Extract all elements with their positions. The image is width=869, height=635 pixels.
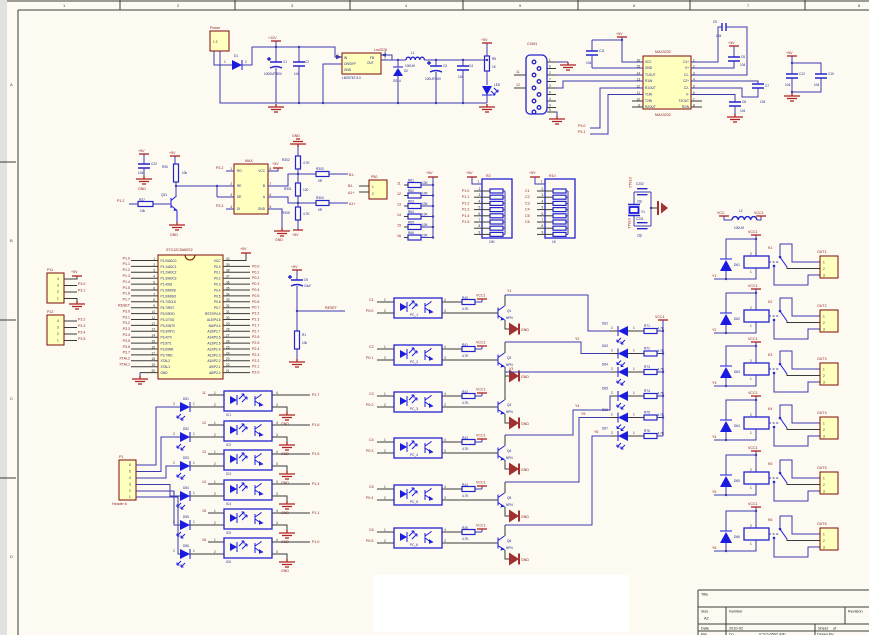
svg-text:+5V: +5V [169,151,176,155]
svg-text:P3.3: P3.3 [216,204,223,208]
svg-text:+5V: +5V [138,149,145,153]
ground below C12 [784,93,800,101]
svg-text:2: 2 [549,71,551,75]
svg-text:P1.1: P1.1 [312,511,319,515]
svg-text:10K: 10K [422,192,429,196]
svg-text:NPN: NPN [506,316,513,320]
svg-text:1: 1 [193,549,195,553]
svg-text:1: 1 [633,391,635,395]
svg-text:OUT2: OUT2 [817,304,827,308]
ground below Q31 [169,222,185,230]
connector OUT2 [820,310,838,332]
wire R1OUT down [590,88,643,128]
resistor R30 10k [174,164,179,182]
svg-text:+5V: +5V [291,265,298,269]
contact wire to pin1 ch3 [780,351,820,369]
svg-text:P2.4: P2.4 [252,347,259,351]
MAX3232 unused stubs [632,100,643,102]
svg-text:R65: R65 [408,221,414,225]
svg-text:+5V: +5V [786,51,793,55]
transistor Q6 NPN [497,538,499,549]
contact wire to pin3 ch1 [774,266,820,285]
svg-text:C4: C4 [369,438,374,442]
svg-text:P3.3: P3.3 [123,327,130,331]
resistor R45 4.7K [462,530,475,535]
svg-text:3: 3 [230,193,232,197]
svg-text:D64: D64 [602,363,608,367]
svg-text:P1.3: P1.3 [123,274,130,278]
svg-text:1: 1 [57,339,59,343]
svg-text:Q6: Q6 [507,539,511,543]
svg-text:R303: R303 [316,167,324,171]
power +5V for max3232 [617,36,627,38]
svg-text:R72: R72 [644,347,650,351]
svg-text:1: 1 [750,542,752,546]
svg-text:R304: R304 [316,196,324,200]
svg-text:P1.0/ADC0: P1.0/ADC0 [161,259,177,263]
svg-text:P3.7: P3.7 [123,351,130,355]
svg-text:C12: C12 [799,72,805,76]
contact wire to pin2 ch3 [787,374,820,376]
indicator diode D65 [610,395,618,397]
svg-text:4: 4 [444,392,446,396]
svg-text:P11: P11 [47,268,53,272]
svg-text:5: 5 [549,108,551,112]
svg-text:10k: 10k [182,171,188,175]
svg-text:C202: C202 [636,182,644,186]
svg-text:RST2/P4.6: RST2/P4.6 [205,312,221,316]
resistor pack R2 element 7 [490,226,503,230]
svg-text:P1.1: P1.1 [123,262,130,266]
svg-text:R76: R76 [644,429,650,433]
wire c11 to gnd pin15 [592,67,643,69]
svg-text:2: 2 [384,403,386,407]
svg-text:D55: D55 [183,515,189,519]
svg-text:GND: GND [138,187,146,191]
transistor Q6 collector stub [504,525,506,536]
svg-text:3: 3 [57,284,59,288]
svg-text:C7: C7 [765,84,769,88]
crystal left rail [633,192,635,204]
svg-text:C3: C3 [369,392,374,396]
svg-text:5: 5 [479,206,481,210]
resistor pack R10 element 1 [553,189,566,193]
svg-text:XTAL1: XTAL1 [119,363,130,367]
svg-text:C2: C2 [369,345,374,349]
resistor R301 120 [296,183,301,196]
svg-text:Q2: Q2 [507,356,511,360]
svg-text:P1.5: P1.5 [462,220,469,224]
svg-text:R45: R45 [462,526,468,530]
svg-text:4.7K: 4.7K [658,392,665,396]
svg-text:6: 6 [479,212,481,216]
svg-text:P1.0: P1.0 [462,189,469,193]
svg-text:4: 4 [444,485,446,489]
svg-text:Y3: Y3 [509,367,513,371]
transistor Q1 collector stub [504,295,506,306]
svg-text:4: 4 [444,345,446,349]
svg-text:P1.2: P1.2 [117,199,124,203]
svg-text:4.7K: 4.7K [462,494,469,498]
svg-text:+12V: +12V [268,36,277,40]
svg-text:D62: D62 [734,317,740,321]
svg-text:1: 1 [384,392,386,396]
ground opto ch2 [279,442,295,450]
svg-text:1: 1 [823,368,825,372]
svg-text:C11: C11 [599,49,605,53]
svg-text:C2: C2 [525,195,530,199]
svg-text:1: 1 [823,315,825,319]
svg-text:A11/P2.3: A11/P2.3 [208,353,221,357]
svg-text:3: 3 [276,403,278,407]
svg-text:16: 16 [636,59,640,63]
svg-text:3: 3 [823,328,825,332]
svg-text:OUT: OUT [367,61,374,65]
svg-text:2: 2 [214,492,216,496]
svg-text:R66: R66 [408,231,414,235]
svg-text:LM2576T-5.0: LM2576T-5.0 [342,76,361,80]
svg-text:LED: LED [494,83,501,87]
svg-text:VCC1: VCC1 [748,446,758,450]
svg-text:100UH: 100UH [734,226,745,230]
opto-isolator U11 [224,421,272,441]
svg-text:D54: D54 [183,486,189,490]
svg-text:Q5: Q5 [507,496,511,500]
svg-text:3: 3 [823,274,825,278]
svg-text:P1.6: P1.6 [312,423,319,427]
svg-text:P3.2: P3.2 [216,166,223,170]
top ruler ticks [120,0,805,10]
svg-text:4: 4 [276,480,278,484]
svg-text:A: A [10,82,13,87]
svg-text:P3.4: P3.4 [78,331,85,335]
svg-text:P3.6/WR: P3.6/WR [161,347,174,351]
svg-text:D2: D2 [404,69,408,73]
svg-text:A8/P2.0: A8/P2.0 [209,371,221,375]
svg-text:104: 104 [740,109,746,113]
svg-text:VCC: VCC [258,169,265,173]
wire out rail 2 [424,59,487,61]
svg-text:1 2: 1 2 [213,40,218,44]
resistor pack R10 element 2 [553,195,566,199]
resistor R75 4.7K [628,417,644,419]
connector OUT6 [820,528,838,550]
inductor L2 100UH [732,217,757,220]
svg-text:10K: 10K [422,181,429,185]
DB9 pin stubs [547,61,556,63]
svg-text:P0.4: P0.4 [252,288,259,292]
svg-text:4.7K: 4.7K [658,349,665,353]
svg-text:P1: P1 [119,455,123,459]
contact wire to pin1 ch5 [780,460,820,478]
power VCC1 pullup ch3 [481,393,483,396]
svg-text:NPN: NPN [506,546,513,550]
svg-text:SS14: SS14 [393,79,401,83]
svg-text:P3.2: P3.2 [78,318,85,322]
svg-text:D65: D65 [602,387,608,391]
diode D2 [397,59,399,61]
resistor R41 4.7K [462,347,475,352]
svg-text:11: 11 [397,182,401,186]
svg-text:2: 2 [823,539,825,543]
svg-text:P1.7: P1.7 [123,298,130,302]
svg-text:1: 1 [214,509,216,513]
svg-text:P12: P12 [47,310,53,314]
svg-text:2: 2 [214,403,216,407]
svg-text:4: 4 [276,450,278,454]
svg-text:3: 3 [57,326,59,330]
MCU pin20 GND wire [140,372,158,374]
svg-text:16: 16 [202,538,206,542]
svg-text:1: 1 [214,538,216,542]
svg-text:NPN: NPN [506,410,513,414]
svg-text:2: 2 [479,187,481,191]
capacitor C8 104 to ground [691,95,735,103]
svg-text:P3.5: P3.5 [78,337,85,341]
svg-text:2: 2 [129,489,131,493]
svg-text:6: 6 [549,65,551,69]
svg-text:P0.2: P0.2 [214,277,221,281]
svg-text:NA/P4.4: NA/P4.4 [209,324,221,328]
svg-text:A13/P2.5: A13/P2.5 [207,342,220,346]
svg-text:2: 2 [384,539,386,543]
power +5V MCU vcc [241,252,251,254]
svg-text:3: 3 [823,490,825,494]
capacitor C4 104 [462,59,464,61]
resistor R303 0R [316,172,329,177]
wire A out [268,197,316,203]
svg-text:104: 104 [740,63,746,67]
svg-text:1: 1 [823,477,825,481]
transistor Q1 NPN [497,308,499,319]
svg-text:1: 1 [478,180,480,184]
svg-text:OUT1: OUT1 [817,250,827,254]
power +5V 485 vcc [268,168,278,171]
svg-text:4: 4 [542,199,544,203]
svg-text:2: 2 [750,524,752,528]
power +5V R30 [170,155,180,157]
svg-text:R1: R1 [302,333,306,337]
svg-text:T2OUT: T2OUT [679,99,690,103]
capacitor C12 104 [791,63,793,74]
svg-text:1: 1 [57,297,59,301]
relay K2 coil [744,310,769,322]
svg-text:Sheet: Sheet [818,627,829,631]
wire 485 gnd [268,209,282,228]
svg-text:1: 1 [372,185,374,189]
svg-text:2: 2 [372,192,374,196]
svg-text:NPN: NPN [506,503,513,507]
P11 pin1 gnd [64,299,77,302]
svg-text:VCC1: VCC1 [748,284,758,288]
svg-text:P0.5: P0.5 [366,539,373,543]
svg-text:2: 2 [173,520,175,524]
svg-text:P0.6: P0.6 [214,300,221,304]
svg-text:12: 12 [397,192,401,196]
ground opto ch4 [279,501,295,509]
svg-text:8: 8 [549,91,551,95]
svg-text:3: 3 [444,496,446,500]
capacitor C3 100uF [435,59,437,61]
svg-text:C1-: C1- [684,73,689,77]
svg-text:+5V: +5V [728,41,735,45]
svg-text:P1.4/SS: P1.4/SS [161,283,173,287]
svg-text:VCC: VCC [717,211,725,215]
svg-text:1000UF/50V: 1000UF/50V [264,72,283,76]
svg-text:1: 1 [633,326,635,330]
svg-text:P0.1: P0.1 [366,356,373,360]
svg-text:Date: Date [701,627,709,631]
contact wire to pin3 ch5 [774,482,820,501]
svg-text:2: 2 [214,433,216,437]
flyback diode D63 [726,346,756,366]
svg-text:P0.2: P0.2 [366,403,373,407]
wire out rail [381,59,406,61]
capacitor C201 22p [634,225,651,227]
svg-text:GND: GND [275,238,283,242]
svg-text:1: 1 [750,431,752,435]
svg-text:B: B [263,184,265,188]
svg-text:L2: L2 [739,209,743,213]
svg-text:GND: GND [521,558,529,562]
svg-text:VCC: VCC [214,259,221,263]
svg-text:Y6: Y6 [712,546,716,550]
svg-text:3: 3 [823,546,825,550]
svg-text:4: 4 [444,528,446,532]
svg-text:1: 1 [633,349,635,353]
svg-text:2: 2 [750,468,752,472]
svg-text:ON/OFF: ON/OFF [344,62,356,66]
svg-text:P0.1: P0.1 [252,270,259,274]
svg-text:P1.5/MOSI: P1.5/MOSI [161,288,177,292]
svg-text:VCC1: VCC1 [476,294,486,298]
svg-text:R2OUT: R2OUT [645,105,656,109]
svg-text:3: 3 [276,462,278,466]
svg-text:+5V: +5V [71,270,78,274]
resistor R76 4.7K [628,435,644,437]
svg-text:2: 2 [611,431,613,435]
svg-text:22p: 22p [637,234,643,238]
power +5V reset [292,269,302,271]
power VCC1 pullup ch4 [481,439,483,442]
opto-isolator U7 PC817 [394,438,442,458]
svg-text:P4.7/RST: P4.7/RST [161,306,175,310]
svg-text:C6: C6 [525,220,530,224]
svg-text:Y6: Y6 [594,430,598,434]
ground opto ch6 [279,559,295,567]
svg-text:GND: GND [521,375,529,379]
svg-text:4.7K: 4.7K [658,368,665,372]
svg-text:4.7K: 4.7K [462,447,469,451]
svg-text:4: 4 [57,319,59,323]
svg-text:R2IN: R2IN [682,105,690,109]
svg-text:2: 2 [611,326,613,330]
transistor Q2 collector stub [504,342,506,353]
svg-text:V-: V- [686,93,689,97]
resistor R74 4.7K [628,395,644,397]
svg-text:P2.5: P2.5 [252,341,259,345]
svg-text:Revision: Revision [848,610,863,614]
svg-text:C4: C4 [525,208,530,212]
opto-isolator U4 PC817 [394,298,442,318]
svg-text:2: 2 [611,349,613,353]
svg-text:P1.2: P1.2 [123,268,130,272]
P11 pin4 to +5V [64,276,77,279]
svg-text:P3.3/INT1: P3.3/INT1 [161,330,176,334]
ground below C22 [136,176,152,184]
opto-isolator U10 [224,391,272,411]
svg-text:104: 104 [138,171,144,175]
svg-text:C6: C6 [369,528,374,532]
svg-text:RESET: RESET [118,304,131,308]
capacitor C5 104 loop [691,27,722,62]
svg-text:1: 1 [384,528,386,532]
svg-text:VCC1: VCC1 [476,481,486,485]
fan wire P1 pin5 [136,491,180,525]
capacitor C22 104 [138,164,150,168]
wire power gnd rail [220,51,276,103]
svg-text:13: 13 [202,450,206,454]
fan wire P1 pin6 [136,497,180,554]
wire top rail [252,46,335,48]
diode D1 [232,60,242,70]
svg-text:VCC1: VCC1 [476,434,486,438]
svg-text:P3.2: P3.2 [252,312,259,316]
svg-text:D65: D65 [734,479,740,483]
svg-text:Q4: Q4 [507,449,511,453]
svg-text:1: 1 [750,324,752,328]
svg-text:2: 2 [823,267,825,271]
svg-text:1: 1 [214,421,216,425]
contact wire to pin2 ch1 [787,267,820,269]
svg-text:C3: C3 [525,201,530,205]
input diode D55 [180,520,190,530]
opto-isolator U8 PC817 [394,485,442,505]
svg-text:P1.7: P1.7 [252,323,259,327]
crystal right rail [650,192,652,226]
input diode D51 [180,402,190,412]
indicator diode D62 [610,330,618,332]
svg-text:1: 1 [384,298,386,302]
svg-text:P1.0: P1.0 [123,256,130,260]
wire diode to opto ch3 [190,465,224,467]
svg-text:P1.3: P1.3 [252,318,259,322]
svg-text:2: 2 [611,367,613,371]
svg-text:100UH: 100UH [405,64,416,68]
svg-text:P3.0: P3.0 [578,124,585,128]
svg-text:P2.2: P2.2 [252,359,259,363]
svg-text:IC1: IC1 [226,413,231,417]
svg-text:Q31: Q31 [161,193,167,197]
svg-text:1: 1 [549,58,551,62]
svg-text:P0.7: P0.7 [214,306,221,310]
power +5V decoupling 485 [139,153,149,155]
svg-text:1: 1 [193,432,195,436]
svg-text:P3.4/T0: P3.4/T0 [161,336,172,340]
opto-isolator U13 [224,480,272,500]
svg-text:P3.2: P3.2 [123,321,130,325]
svg-text:1: 1 [224,60,226,64]
svg-text:4.7K: 4.7K [658,327,665,331]
svg-text:P1.0: P1.0 [312,540,319,544]
contact wire to pin3 ch6 [774,538,820,557]
svg-text:4: 4 [129,476,131,480]
svg-text:C5: C5 [713,20,717,24]
ground below LED [479,104,495,112]
input diode D52 [180,432,190,442]
resistor pack R2 [467,176,477,178]
svg-text:C8: C8 [742,100,746,104]
